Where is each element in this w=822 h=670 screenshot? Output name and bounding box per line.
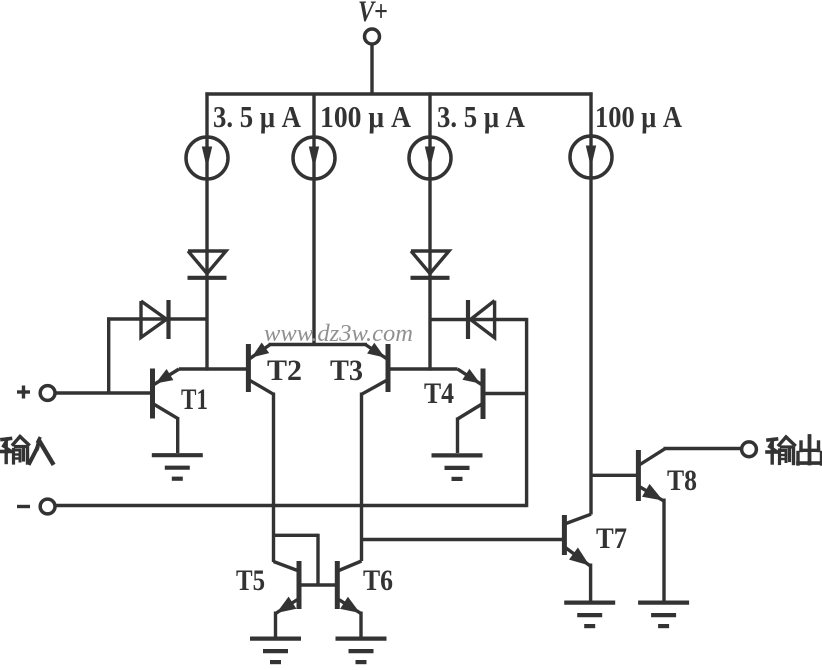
ground (T7 emitter) xyxy=(564,603,615,627)
ground (T4 collector) xyxy=(432,455,483,479)
svg-text:3. 5 μ A: 3. 5 μ A xyxy=(437,99,526,134)
label T5 xyxy=(236,564,265,597)
transistor T2 (PNP diff pair left) xyxy=(248,343,273,395)
ground (T5 emitter) xyxy=(250,639,301,663)
svg-text:T1: T1 xyxy=(181,383,208,416)
transistor T3 (PNP diff pair right) xyxy=(362,343,388,395)
label T3 xyxy=(330,354,363,387)
wire: right clamp vertical xyxy=(525,318,528,507)
transistor T5 (NPN current mirror, diode side) xyxy=(274,561,300,637)
output terminal (node OUT) xyxy=(742,442,757,457)
wire: + input to T1 base xyxy=(55,391,154,394)
svg-text:www.dz3w.com: www.dz3w.com xyxy=(264,321,413,347)
current source I4 100uA xyxy=(570,136,612,178)
label V+ xyxy=(358,0,388,28)
wire: D4 link xyxy=(430,318,527,321)
wire: T2 collector to T5 collector xyxy=(272,393,275,563)
wire: T3 collector to T6 collector xyxy=(360,393,363,562)
wire: - input line xyxy=(55,504,526,507)
label T1 xyxy=(181,383,208,416)
wire: T8 collector to output xyxy=(664,447,743,450)
label T6 xyxy=(363,564,393,597)
ground (T8 emitter) xyxy=(638,603,689,627)
value label 100uA (I4) xyxy=(595,99,683,134)
wire: node B (T4 emitter / T3 base) xyxy=(386,367,458,370)
ground (T6 emitter) xyxy=(336,639,387,663)
watermark www.dz3w.com xyxy=(264,321,413,347)
diode D4 (clamp, node B side) xyxy=(468,300,495,339)
wire: node A (T1 emitter / T2 base) xyxy=(179,367,250,370)
label - (inverting input) xyxy=(17,505,30,508)
current source I1 3.5uA xyxy=(186,137,228,179)
svg-text:T7: T7 xyxy=(596,522,627,555)
diode D3 (clamp, + input to node A) xyxy=(141,300,169,339)
svg-text:3. 5 μ A: 3. 5 μ A xyxy=(213,99,302,134)
power terminal V+ xyxy=(365,29,380,44)
wire: V+ stem xyxy=(370,45,373,96)
wire: branch 2 (100uA centre) xyxy=(312,94,315,346)
label + (non-inverting input) xyxy=(17,386,30,399)
input terminal - (node IN-) xyxy=(40,499,55,514)
value label 3.5uA (I3) xyxy=(437,99,526,134)
svg-text:100 μ A: 100 μ A xyxy=(595,99,683,134)
svg-text:T6: T6 xyxy=(363,564,393,597)
svg-text:T3: T3 xyxy=(330,354,363,387)
wire: mirror tap (T5 collector to bases) xyxy=(274,534,338,585)
transistor T4 (PNP input follower, - side) xyxy=(458,369,484,454)
label T2 xyxy=(267,354,302,387)
label 输入 (input) xyxy=(1,437,53,464)
svg-text:T4: T4 xyxy=(424,377,454,410)
transistor T7 (NPN gain stage) xyxy=(564,514,591,601)
diode D1 (below I1) xyxy=(188,251,227,278)
transistor T6 (NPN current mirror, output side) xyxy=(337,561,361,637)
svg-text:V+: V+ xyxy=(358,0,388,28)
wire: T2/T3 emitter junction to I2 xyxy=(269,343,368,346)
wire: D3 anode link xyxy=(107,317,207,394)
wire: T6 collector to T7 base xyxy=(362,538,566,541)
wire: branch 3 (3.5uA right) xyxy=(428,92,431,370)
transistor T1 (PNP input follower, + side) xyxy=(153,369,180,454)
svg-text:T2: T2 xyxy=(267,354,302,387)
current source I2 100uA xyxy=(293,137,335,179)
wire: top supply rail xyxy=(205,92,592,95)
wire: T4 base to clamp line xyxy=(483,392,527,395)
wire: branch 4 (100uA right) xyxy=(589,92,592,514)
transistor T8 (NPN output follower) xyxy=(638,449,665,601)
label T7 xyxy=(596,522,627,555)
current source I3 3.5uA xyxy=(409,137,451,179)
diode D2 (below I3) xyxy=(411,251,450,278)
input terminal + (node IN+) xyxy=(40,386,55,401)
label 输出 (output) xyxy=(767,436,822,464)
wire: branch 1 (3.5uA left) xyxy=(205,92,208,370)
wire: T7 collector node to T8 base xyxy=(591,474,640,477)
ground (T1 collector) xyxy=(152,455,203,479)
svg-text:T5: T5 xyxy=(236,564,265,597)
label T4 xyxy=(424,377,454,410)
label T8 xyxy=(667,464,697,497)
value label 100uA (I2) xyxy=(320,99,412,134)
value label 3.5uA (I1) xyxy=(213,99,302,134)
svg-text:T8: T8 xyxy=(667,464,697,497)
svg-text:100 μ A: 100 μ A xyxy=(320,99,412,134)
